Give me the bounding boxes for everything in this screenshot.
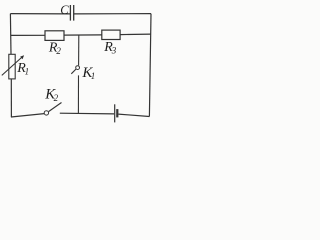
wire left vertical lower: [10, 79, 12, 117]
rheostat R1 body: [9, 54, 15, 79]
battery long plate: [114, 104, 116, 122]
wire bottom-left segment: [11, 114, 44, 117]
resistor R2: [45, 31, 64, 41]
switch K1 blade: [71, 69, 76, 74]
resistor R3: [102, 30, 120, 39]
label R3: [103, 40, 117, 55]
wire left vertical upper: [9, 14, 12, 55]
wire top-right segment: [74, 13, 151, 15]
svg-text:1: 1: [25, 67, 30, 77]
capacitor C: [70, 5, 73, 21]
battery short plate: [116, 109, 118, 117]
wire middle row left segment: [11, 34, 45, 36]
wire middle row center segment: [64, 34, 102, 36]
switch K2 blade: [49, 103, 62, 112]
label K1: [81, 65, 95, 81]
wire middle row right segment: [120, 33, 151, 36]
label K2: [44, 87, 58, 104]
wire right vertical: [149, 14, 151, 117]
wire bottom-center segment: [60, 112, 114, 115]
wire K1 branch upper: [78, 35, 80, 65]
svg-text:3: 3: [111, 45, 117, 55]
label R2: [48, 40, 62, 56]
wire bottom-right segment: [118, 114, 149, 116]
rheostat R1 arrow: [2, 55, 24, 75]
svg-text:2: 2: [54, 93, 59, 103]
wire K1 branch lower: [77, 75, 79, 113]
label R1: [16, 61, 29, 77]
switch K1 pivot: [76, 66, 80, 70]
svg-text:C: C: [60, 3, 69, 17]
svg-text:1: 1: [91, 71, 96, 81]
wire top-left segment: [10, 13, 70, 15]
switch K2 pivot: [44, 111, 48, 115]
svg-text:2: 2: [56, 46, 61, 56]
